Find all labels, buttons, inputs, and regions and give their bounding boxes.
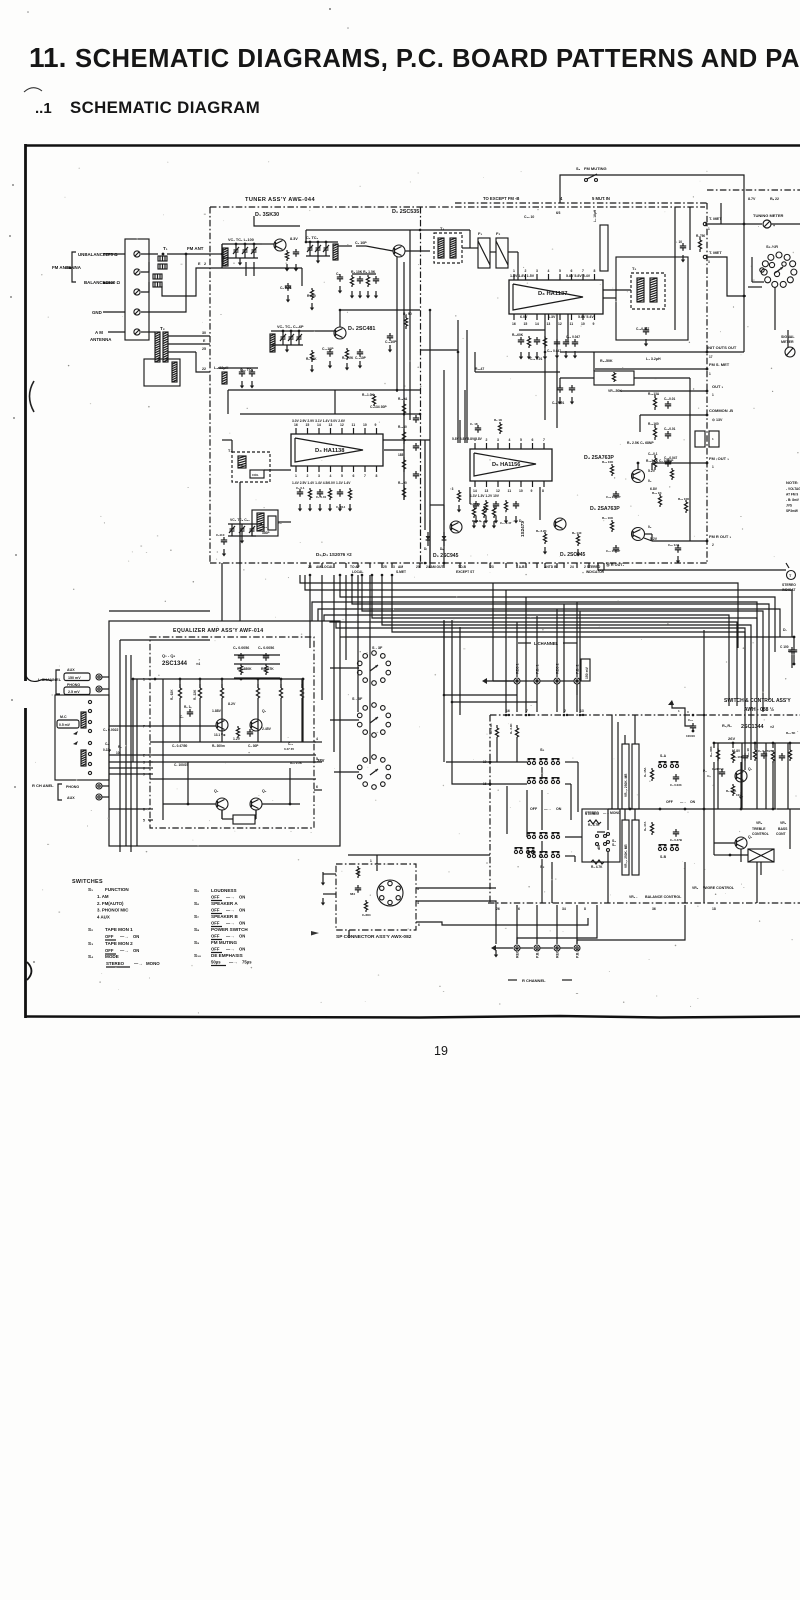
mode box stereo: [582, 809, 620, 862]
capacitor: [557, 385, 563, 393]
svg-text:L CHANNEL: L CHANNEL: [534, 641, 559, 646]
wire m22: [651, 463, 653, 470]
ground: [308, 504, 312, 512]
svg-text:R₉ 300m: R₉ 300m: [212, 744, 225, 748]
transistor Q1 2SC1344: [216, 719, 228, 731]
svg-text:8.7V: 8.7V: [748, 197, 756, 201]
resistor R3: [350, 275, 353, 287]
svg-text:—→: —→: [544, 807, 551, 811]
wire m17: [595, 368, 707, 370]
wire t met 2: [707, 257, 746, 296]
capacitor C3 0.033: [673, 774, 679, 782]
wire m31: [301, 268, 303, 286]
svg-text:24: 24: [570, 565, 574, 569]
transistor D6 2SC945: [554, 518, 566, 530]
T4 coil b: [450, 238, 456, 258]
svg-text:FM MUTING: FM MUTING: [211, 940, 237, 945]
tone stage long verticals: [717, 743, 719, 809]
svg-text:R₄₅ 10K: R₄₅ 10K: [602, 460, 614, 464]
svg-text:8: 8: [594, 269, 596, 273]
svg-text:OFF: OFF: [530, 807, 538, 811]
bus wire 5: [372, 575, 757, 748]
svg-text:C₆₁0.01: C₆₁0.01: [664, 397, 675, 401]
svg-text:S₆: S₆: [194, 901, 199, 906]
capacitor: [413, 443, 419, 451]
svg-text:ON: ON: [690, 800, 696, 804]
capacitor C25 100/16: [690, 723, 696, 731]
svg-text:C₄₅ 2200P: C₄₅ 2200P: [606, 495, 620, 499]
svg-text:Q₄: Q₄: [262, 789, 267, 793]
svg-text:2SC1344: 2SC1344: [741, 724, 763, 730]
ground: [240, 381, 244, 389]
svg-text:+: +: [773, 224, 775, 228]
capacitor: [613, 545, 619, 553]
svg-text:684: 684: [350, 892, 355, 896]
bus wire 8: [300, 575, 738, 648]
wires upper mid verticals: [429, 310, 431, 563]
svg-text:ON: ON: [239, 947, 245, 952]
resistor: [670, 468, 673, 480]
svg-text:8.2V: 8.2V: [228, 702, 236, 706]
svg-text:185: 185: [398, 453, 404, 457]
rec/pb jack R: [554, 945, 560, 951]
capacitor C16: [239, 369, 245, 377]
capacitor: [247, 729, 253, 737]
svg-text:SCHEMATIC DIAGRAMS, P.C. BOARD: SCHEMATIC DIAGRAMS, P.C. BOARD PATTERNS …: [75, 45, 800, 73]
resistor: [658, 494, 661, 507]
capacitor: [572, 339, 578, 347]
wire sw: [541, 859, 543, 903]
capacitor C100: [789, 647, 795, 655]
svg-text:—→: —→: [226, 908, 234, 913]
resistor R6 17A: [650, 822, 653, 835]
resistor R8: [310, 350, 313, 362]
capacitor C7: [373, 276, 379, 284]
right margin wires: [774, 287, 776, 330]
svg-text:R₁₆ 68K: R₁₆ 68K: [709, 745, 713, 757]
svg-text:R₅₂60K: R₅₂60K: [512, 333, 524, 337]
svg-text:T₅: T₅: [632, 266, 636, 271]
variable capacitor: [317, 242, 319, 248]
wire m12: [457, 320, 459, 443]
svg-text:2: 2: [307, 474, 309, 478]
resistor eq1: [198, 684, 201, 702]
sel arrows: [73, 731, 78, 735]
svg-text:1: 1: [709, 372, 711, 376]
wires L to left: [444, 695, 517, 715]
svg-text:SPEAKER A: SPEAKER A: [211, 901, 238, 906]
svg-text:Dₗ: Dₗ: [424, 547, 427, 551]
svg-text:C₅₀ 0.01: C₅₀ 0.01: [668, 543, 680, 547]
ground: [570, 397, 574, 405]
svg-text:C₄₇ 1500P: C₄₇ 1500P: [606, 549, 620, 553]
svg-text:R₃: R₃: [118, 745, 122, 749]
wires connectors left: [330, 667, 359, 669]
svg-text:12: 12: [496, 489, 500, 493]
svg-text:19: 19: [434, 1044, 448, 1058]
wire m47: [689, 378, 691, 430]
AM osc can: [232, 452, 270, 482]
wire riser: [443, 621, 445, 695]
svg-text:P₄: P₄: [703, 769, 707, 773]
capacitor: [665, 401, 671, 409]
svg-text:T₁: T₁: [163, 246, 168, 251]
svg-text:ON: ON: [239, 895, 245, 900]
ground: [358, 291, 362, 299]
svg-text:- B: 8mV: - B: 8mV: [786, 498, 800, 502]
resistor VRB: [612, 372, 615, 382]
svg-text:C₅₆ 0.01: C₅₆ 0.01: [552, 401, 565, 405]
T2 box: [144, 359, 180, 386]
svg-text:T₄: T₄: [440, 226, 444, 231]
svg-text:Q₁ - Q₄: Q₁ - Q₄: [162, 653, 175, 658]
wire to mixer transistor: [366, 246, 393, 251]
svg-text:10: 10: [519, 489, 523, 493]
mixer coil: [333, 244, 338, 260]
wire riser: [505, 590, 507, 713]
svg-text:14: 14: [473, 489, 477, 493]
svg-text:2. FM(AUTO): 2. FM(AUTO): [97, 901, 124, 906]
balance box: [748, 849, 774, 862]
svg-text:- VOLTAGE: - VOLTAGE: [786, 487, 800, 491]
svg-text:2.5 mV: 2.5 mV: [68, 690, 80, 694]
svg-text:25: 25: [202, 347, 206, 351]
svg-text:JVS: JVS: [786, 504, 792, 508]
capacitor C15: [387, 333, 393, 341]
antenna terminal strip: [125, 239, 149, 340]
svg-text:FM MUTING: FM MUTING: [584, 166, 607, 171]
resistor: [348, 488, 351, 500]
wire T MET 1 full: [705, 223, 762, 225]
ground: [474, 516, 478, 524]
vertical to switch assy: [703, 630, 705, 868]
svg-text:↑3: ↑3: [450, 487, 454, 491]
svg-text:24 AM OUT: 24 AM OUT: [426, 565, 443, 569]
variable capacitor: [282, 331, 284, 337]
svg-text:3: 3: [497, 438, 499, 442]
wire m37: [420, 349, 458, 351]
S1 contacts row b: [527, 777, 559, 784]
wire rf to fet: [262, 243, 274, 245]
jack drop wires: [516, 684, 518, 712]
svg-text:—→: —→: [120, 948, 128, 953]
svg-text:BALANCE CONTROL: BALANCE CONTROL: [645, 895, 682, 899]
wire bundle eq to switch: [340, 636, 347, 638]
svg-text:10: 10: [581, 322, 585, 326]
scan specks: [329, 8, 331, 10]
svg-text:5: 5: [520, 438, 522, 442]
ground: [484, 516, 488, 524]
ground: [358, 361, 362, 369]
svg-text:R₁,R₂: R₁,R₂: [722, 724, 732, 728]
resistor: [684, 500, 687, 513]
svg-text:S₁₀: S₁₀: [194, 953, 201, 958]
resistor: [498, 422, 501, 434]
svg-text:AT FM 9: AT FM 9: [786, 493, 798, 497]
svg-text:1: 1: [295, 474, 297, 478]
svg-text:ON: ON: [133, 934, 139, 939]
capacitor: [563, 339, 569, 347]
wire m14: [544, 314, 546, 420]
svg-text:8: 8: [542, 489, 544, 493]
svg-text:—→: —→: [226, 895, 234, 900]
svg-text:8: 8: [376, 474, 378, 478]
svg-text:0.47 35: 0.47 35: [284, 747, 294, 751]
svg-text:4: 4: [548, 269, 550, 273]
svg-text:—→: —→: [226, 947, 234, 952]
resistor eq2: [220, 684, 223, 702]
resistor: [482, 506, 485, 518]
T4 coil a: [438, 238, 444, 258]
sp connector socket: [377, 880, 403, 906]
svg-text:15: 15: [524, 322, 528, 326]
resistor R6: [404, 315, 407, 329]
capacitor: [665, 459, 671, 467]
resistor R17: [731, 750, 734, 763]
svg-text:75μs: 75μs: [242, 960, 252, 965]
svg-text:S₃: S₃: [88, 941, 93, 946]
mic input box: [55, 695, 109, 780]
long verticals mid: [443, 620, 445, 695]
svg-text:2.45V: 2.45V: [262, 727, 272, 731]
svg-text:TREBLE: TREBLE: [752, 827, 766, 831]
resistor R5 3.3K: [495, 725, 498, 740]
wire m30: [459, 420, 461, 443]
svg-text:C₅ 0.1: C₅ 0.1: [296, 486, 305, 490]
ground: [294, 264, 298, 272]
wire agc: [254, 216, 300, 226]
wire 763 out lower: [644, 538, 652, 541]
S2 contacts row b: [527, 851, 559, 858]
wire m16: [560, 351, 707, 353]
wire 763 collector links: [637, 463, 639, 470]
wire m10: [278, 521, 291, 523]
wire riser: [525, 597, 527, 713]
wire m43: [469, 487, 471, 504]
label brackets: [72, 252, 76, 282]
svg-text:0₄: 0₄: [648, 479, 652, 483]
variable capacitor: [241, 524, 243, 529]
ground: [676, 556, 680, 564]
svg-text:30: 30: [202, 331, 206, 335]
ground: [285, 345, 289, 353]
variable capacitor: [235, 244, 237, 250]
svg-text:150 mV: 150 mV: [68, 676, 81, 680]
svg-text:VR₆: VR₆: [780, 821, 787, 825]
dashdot top right: [707, 189, 800, 191]
svg-text:T₃: T₃: [228, 449, 232, 453]
svg-text:22: 22: [202, 367, 206, 371]
S1 contacts row a: [527, 758, 559, 765]
svg-text:ON: ON: [239, 908, 245, 913]
transistor Q4 2SC1344: [250, 798, 262, 810]
jack L phono: [96, 686, 102, 692]
left margin specks: [12, 184, 14, 186]
capacitor C4 NP: [719, 769, 725, 777]
svg-text:C₃134 30P: C₃134 30P: [370, 405, 387, 409]
ground: [739, 792, 743, 800]
switch pole links: [541, 790, 543, 830]
ceramic filter F1: [478, 238, 490, 268]
T5 coil a: [637, 278, 644, 302]
svg-text:11.: 11.: [29, 42, 66, 73]
svg-text:PHONO: PHONO: [66, 785, 79, 789]
svg-text:4: 4: [330, 474, 332, 478]
svg-text:—→: —→: [120, 934, 128, 939]
svg-text:↓ 10: ↓ 10: [676, 240, 682, 244]
rf cluster ground rail: [222, 257, 258, 259]
capacitor C9: [285, 283, 291, 291]
svg-text:1.3V: 1.3V: [548, 315, 556, 319]
capacitor C5 10P: [742, 753, 748, 761]
svg-text:12: 12: [340, 423, 344, 427]
svg-text:R₅ 6.3ₖ: R₅ 6.3ₖ: [472, 519, 483, 523]
diode: [427, 532, 429, 546]
eq mid rail: [150, 741, 316, 743]
IC HA1138 AM tuner: [291, 423, 383, 478]
wire riser: [563, 604, 565, 713]
wire m6: [228, 389, 420, 391]
svg-text:C₅ 0.0056: C₅ 0.0056: [233, 646, 249, 650]
svg-text:FUNCTION: FUNCTION: [105, 887, 129, 892]
wire vr to rail: [624, 809, 626, 820]
AM osc coil: [222, 372, 227, 384]
sp connector boundary: [336, 864, 416, 930]
capacitor: [761, 751, 767, 759]
svg-text:R₄ 2.5K C₄ 68NP: R₄ 2.5K C₄ 68NP: [627, 441, 654, 445]
svg-text:R₆ 17A: R₆ 17A: [643, 821, 647, 831]
main rail 809: [608, 808, 800, 810]
S7A contacts: [658, 761, 678, 768]
quad coil T5: [631, 273, 665, 309]
transistor 2SA763P upper: [632, 470, 645, 483]
ground: [345, 363, 349, 371]
resistor: [653, 455, 656, 470]
wire m29: [787, 330, 789, 347]
wire IF path: [405, 250, 430, 252]
tone verticals to bottom boundary: [713, 809, 715, 855]
svg-text:1S2473: 1S2473: [520, 521, 525, 537]
resistor R9: [345, 348, 348, 360]
svg-text:1: 1: [708, 227, 710, 231]
capacitor: [779, 753, 785, 761]
switch assy boundary dashdot: [490, 714, 800, 716]
svg-text:0.5 mV: 0.5 mV: [59, 723, 71, 727]
capacitor C6 fb: [263, 653, 269, 661]
svg-text:2: 2: [712, 543, 714, 547]
svg-text:LOCAL: LOCAL: [352, 570, 363, 574]
AM-FM boundary dashdot: [420, 207, 422, 563]
bus wire 2: [340, 575, 775, 652]
svg-text:7: 7: [582, 269, 584, 273]
bus corner wires right: [312, 602, 757, 637]
svg-text:3: 3: [318, 474, 320, 478]
wire m24: [651, 534, 653, 541]
svg-text:1.8V 1.8V 1.5V: 1.8V 1.8V 1.5V: [510, 274, 535, 278]
svg-text:Q₂: Q₂: [262, 709, 267, 713]
svg-text:OFF: OFF: [211, 895, 220, 900]
svg-text:S - 3F: S - 3F: [352, 697, 363, 701]
resistor: [610, 520, 613, 532]
osc coil: [270, 334, 275, 352]
svg-text:4: 4: [509, 438, 511, 442]
150mV box: [581, 659, 590, 681]
svg-text:..1: ..1: [35, 100, 52, 117]
svg-text:6: 6: [418, 923, 420, 927]
wire E-2 node: [162, 268, 210, 296]
ground: [285, 264, 289, 272]
svg-text:R₃₇1.0K: R₃₇1.0K: [362, 393, 374, 397]
equalizer assy boundary: [150, 637, 314, 828]
eq inner verticals: [162, 679, 164, 820]
capacitor C46: [643, 327, 649, 335]
svg-text:WIGRE CONTROL: WIGRE CONTROL: [703, 886, 735, 890]
svg-text:50μs: 50μs: [211, 960, 221, 965]
svg-text:POWER SWITCH: POWER SWITCH: [211, 927, 248, 932]
rec/pb jack L: [574, 678, 580, 684]
svg-text:R₆ 1ₖ: R₆ 1ₖ: [184, 705, 192, 709]
svg-text:S₁: S₁: [540, 747, 545, 752]
svg-text:5: 5: [341, 474, 343, 478]
svg-text:C₃ 0.47/50: C₃ 0.47/50: [172, 744, 188, 748]
S2 inner contacts: [769, 262, 774, 267]
svg-text:D₅ 2SC945: D₅ 2SC945: [433, 553, 459, 559]
wire riser: [536, 616, 538, 677]
ground: [494, 516, 498, 524]
wire to am det: [429, 520, 431, 563]
ground: [238, 258, 242, 266]
jack L aux: [96, 674, 102, 680]
svg-text:OFF: OFF: [105, 934, 114, 939]
bus wire 6: [382, 575, 751, 760]
svg-text:M.C: M.C: [60, 715, 67, 719]
svg-text:C₃ 0.033: C₃ 0.033: [670, 783, 682, 787]
svg-text:R₁₅ 5K: R₁₅ 5K: [786, 731, 796, 735]
rec/pb jack L: [554, 678, 560, 684]
svg-text:TAPE MON 1: TAPE MON 1: [105, 927, 133, 932]
svg-text:S₅: S₅: [194, 888, 199, 893]
equalizer outer box: [109, 621, 340, 846]
svg-text:VR₃,₄ 250K- MB: VR₃,₄ 250K- MB: [624, 844, 628, 868]
wires T2 to tuner: [168, 335, 210, 337]
S5 S6 contacts left: [607, 833, 610, 836]
junction dots bus: [516, 680, 519, 683]
capacitor: [317, 489, 323, 497]
svg-text:C₂684: C₂684: [362, 913, 371, 917]
ground: [681, 255, 685, 263]
svg-text:S₉: S₉: [194, 940, 199, 945]
wire m5: [409, 230, 411, 420]
svg-text:D₃ 2SC481: D₃ 2SC481: [348, 326, 375, 332]
osc can coil: [238, 456, 246, 468]
transistor Q3 2SC1344: [216, 798, 228, 810]
svg-text:R₉ 2.2K: R₉ 2.2K: [342, 356, 354, 360]
svg-text:S₇A: S₇A: [660, 754, 667, 758]
resistor R2 sp: [364, 900, 367, 912]
svg-text:R₄₆ 1K: R₄₆ 1K: [652, 491, 662, 495]
terminal: [134, 329, 140, 335]
svg-text:S - 3F: S - 3F: [372, 646, 383, 650]
rec/pb jack R: [534, 945, 540, 951]
svg-text:R₃₃80: R₃₃80: [398, 425, 407, 429]
svg-text:1: 1: [712, 393, 714, 397]
capacitor: [675, 545, 681, 553]
wire sw: [506, 786, 508, 834]
svg-text:C₂ TC₂: C₂ TC₂: [306, 236, 319, 240]
wire sw: [684, 862, 686, 903]
svg-text:TUNING METER: TUNING METER: [753, 213, 784, 218]
wire balanced feed: [141, 282, 149, 292]
